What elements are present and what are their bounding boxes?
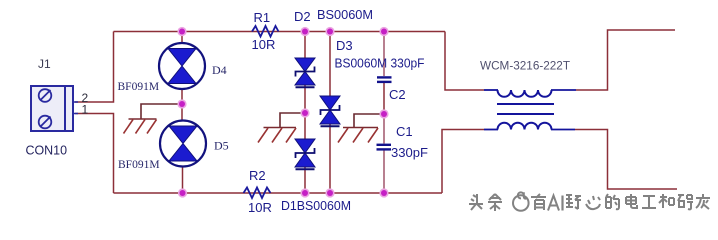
svg-text:WCM-3216-222T: WCM-3216-222T — [480, 59, 571, 73]
connector screw terminal pin 2 — [39, 89, 52, 102]
TVS diode D1 — [295, 139, 315, 169]
junction dots top rail — [177, 27, 388, 36]
choke core bar 1 — [497, 103, 554, 105]
wire ground 1 — [141, 104, 182, 119]
svg-text:1: 1 — [82, 103, 89, 117]
wire D3 top lead — [329, 32, 331, 97]
wire D4 bottom to D5 top — [181, 89, 183, 121]
svg-text:330pF: 330pF — [391, 145, 428, 160]
svg-text:CON10: CON10 — [26, 143, 68, 158]
wire D4 top lead — [181, 32, 183, 45]
wire choke bottom right — [575, 130, 677, 190]
connector screw terminal pin 1 — [39, 116, 52, 129]
wire ground 2 — [280, 113, 305, 128]
svg-text:BS0060M: BS0060M — [317, 7, 373, 22]
diode D4 circle — [159, 43, 205, 89]
svg-text:C1: C1 — [396, 124, 413, 139]
wire D2 bottom to D1 top — [304, 86, 306, 140]
svg-text:D5: D5 — [214, 139, 229, 153]
diode D5 bowtie — [169, 126, 197, 161]
wire D1 bottom lead — [304, 167, 306, 193]
wire choke top right — [576, 30, 675, 90]
choke bottom left pin — [484, 129, 498, 131]
wire top rail to choke top left — [445, 32, 484, 91]
TVS diode D2 — [295, 58, 315, 87]
svg-text:D4: D4 — [212, 63, 227, 77]
wire D3 bottom lead — [329, 124, 331, 193]
choke top right pin — [551, 89, 576, 91]
wire pin2 to top rail — [75, 32, 114, 103]
svg-text:D3: D3 — [336, 38, 353, 53]
wire D2 top lead — [304, 32, 306, 59]
wire D5 bottom lead — [182, 167, 184, 194]
svg-text:10R: 10R — [248, 200, 272, 215]
choke L1 top winding — [498, 90, 552, 97]
wire ground 3 — [354, 114, 384, 128]
choke L1 bottom winding — [498, 123, 552, 130]
ground 3 — [338, 128, 378, 143]
ground 2 — [258, 128, 296, 143]
junction dot node D4 D5 — [177, 99, 186, 108]
wire C2 bottom to node — [383, 83, 385, 114]
TVS diode D3 — [320, 96, 340, 126]
resistor R2 — [244, 188, 271, 199]
junction dot node D2 D1 — [300, 108, 309, 117]
svg-text:BF091M: BF091M — [118, 159, 160, 171]
svg-text:D1BS0060M: D1BS0060M — [281, 198, 351, 213]
svg-text:J1: J1 — [38, 57, 51, 71]
ground 1 — [124, 119, 157, 134]
wire bottom rail — [114, 192, 443, 194]
wire node to C1 top — [383, 114, 385, 144]
svg-text:R1: R1 — [254, 10, 271, 25]
svg-text:C2: C2 — [389, 87, 406, 102]
svg-text:BF091M: BF091M — [118, 81, 160, 93]
capacitor C2 — [377, 77, 392, 82]
choke bottom right pin — [551, 129, 575, 131]
diode D5 circle — [160, 121, 206, 167]
wire C1 bottom lead — [383, 151, 385, 194]
svg-text:R2: R2 — [249, 168, 266, 183]
diode D4 bowtie — [168, 49, 196, 84]
junction dots bottom rail — [178, 188, 389, 197]
svg-text:D2: D2 — [294, 9, 311, 24]
capacitor C1 — [377, 145, 392, 150]
pin 2 stub — [73, 101, 78, 103]
svg-text:BS0060M 330pF: BS0060M 330pF — [335, 56, 425, 71]
choke core bar 2 — [497, 113, 554, 115]
svg-text:10R: 10R — [252, 37, 276, 52]
wire bottom rail to choke bottom left — [442, 130, 484, 194]
junction dot node C2 C1 — [379, 109, 388, 118]
wire pin1 to bottom rail — [75, 114, 114, 194]
choke top left pin — [484, 89, 498, 91]
resistor R1 — [252, 26, 279, 37]
pin 1 stub — [73, 113, 78, 115]
connector J1 inner line — [64, 87, 66, 130]
wire C2 top lead — [383, 32, 385, 77]
connector J1 body — [31, 86, 73, 131]
wire top rail — [114, 31, 446, 33]
